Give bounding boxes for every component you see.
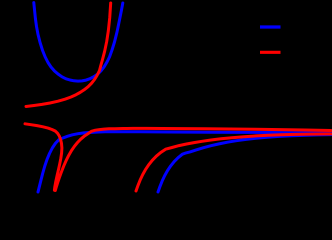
legend blue sample line — [260, 25, 281, 28]
blue curve: second lower branch rising from bottom middle — [158, 135, 331, 192]
red curve: exponential-like branch crossing the blue U — [26, 3, 111, 107]
blue curve: upper-left U branch — [34, 3, 123, 82]
red curve: second branch rising from bottom middle — [136, 134, 331, 191]
legend red sample line — [260, 51, 281, 54]
blue curve: lower branch rising from bottom left to horizontal asymptote — [38, 132, 331, 192]
red curve: left flat branch with narrow V dip then horizontal asymptote — [25, 124, 331, 191]
